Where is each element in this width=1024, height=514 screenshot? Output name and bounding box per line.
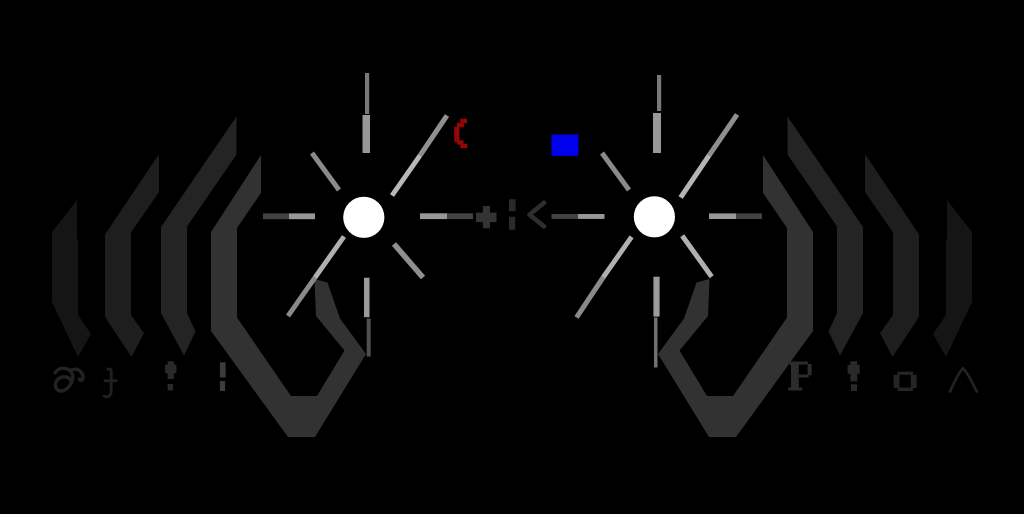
right star up ray outer (657, 75, 661, 111)
right star down ray inner (653, 277, 659, 317)
right hook claw (658, 155, 813, 437)
left star up ray inner (363, 115, 371, 153)
exclamation glyph left (165, 361, 176, 390)
right star down-left ray inner (601, 235, 633, 278)
left star down-left ray inner (313, 235, 346, 279)
exclamation glyph right (848, 361, 860, 391)
blue square item (551, 135, 578, 156)
left star down ray outer (367, 319, 371, 357)
left hook claw (211, 155, 366, 437)
right star up-right ray outer (707, 113, 739, 157)
left star right ray outer dash (447, 213, 473, 219)
left talon 1 (52, 200, 91, 357)
semicolon glyph left row (220, 362, 226, 391)
right talon 1 (933, 200, 972, 357)
red item ( glyph (454, 119, 467, 148)
left talon 3 (161, 117, 237, 356)
left star left ray inner dash (289, 213, 315, 219)
left star up-left ray (310, 152, 341, 192)
right star core (634, 196, 675, 237)
right star up-right ray inner (679, 154, 712, 199)
right star right ray inner dash (709, 213, 736, 219)
plus glyph (476, 206, 497, 228)
caret glyph (950, 368, 977, 391)
left star up-right ray outer (418, 114, 449, 157)
P glyph (788, 362, 811, 391)
right star left ray inner dash (578, 214, 605, 219)
left talon 2 (105, 154, 159, 357)
right star up-left ray (600, 152, 631, 192)
semicolon glyph (509, 199, 516, 229)
right star left ray outer dash (552, 214, 579, 219)
right star down ray outer (654, 318, 658, 368)
right star down-right ray (680, 234, 714, 278)
right talon 2 (865, 154, 919, 357)
right star up ray inner (653, 113, 661, 153)
left star down-left ray outer (286, 276, 317, 317)
less-than glyph (529, 202, 546, 228)
left star up-right ray inner (390, 154, 422, 197)
right star right ray outer dash (736, 213, 762, 219)
left star left ray outer dash (263, 213, 289, 219)
square o glyph (894, 372, 917, 391)
right talon 3 (788, 117, 864, 356)
right star down-left ray outer (574, 276, 605, 319)
left star right ray inner dash (420, 213, 447, 219)
left star down ray inner (364, 278, 370, 318)
florin glyph (104, 369, 116, 397)
partial glyph curl (55, 368, 83, 391)
left star core (343, 197, 384, 238)
left star up ray outer (365, 73, 369, 114)
left star down-right ray (392, 242, 425, 279)
